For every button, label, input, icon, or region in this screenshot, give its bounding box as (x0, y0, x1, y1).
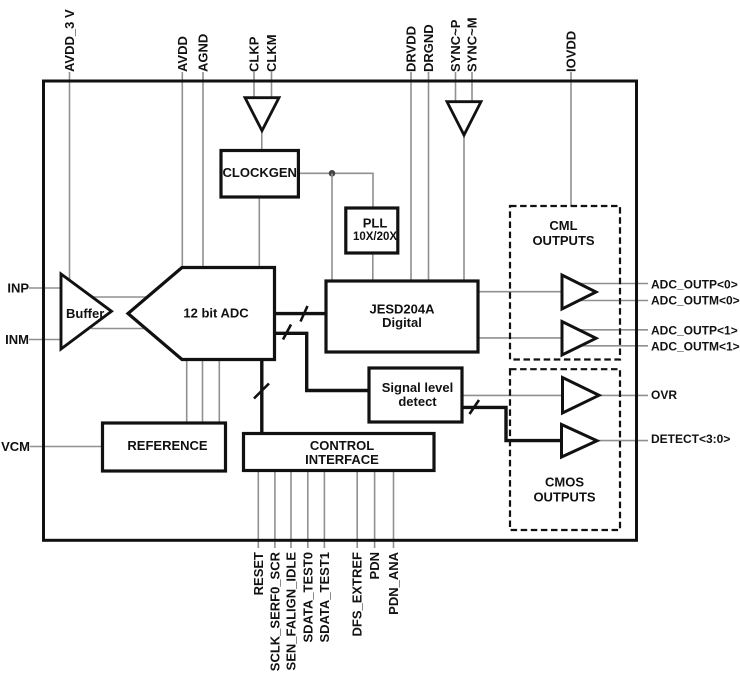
PLL block (346, 208, 398, 253)
wire ADC to control interface bus (260, 360, 263, 434)
svg-text:DETECT<3:0>: DETECT<3:0> (651, 432, 730, 446)
CML output buffer 1 (562, 322, 596, 356)
svg-text:PLL: PLL (363, 216, 388, 231)
svg-text:IOVDD: IOVDD (564, 31, 579, 72)
svg-text:CLKP: CLKP (247, 36, 262, 72)
outer frame (44, 81, 637, 540)
bus slash on ADC-JESD bus (301, 306, 308, 322)
svg-text:DRGND: DRGND (421, 24, 436, 72)
svg-text:12 bit ADC: 12 bit ADC (183, 306, 249, 321)
wire SDATA_TEST0 pin (307, 470, 309, 548)
svg-text:Signal level: Signal level (382, 380, 454, 395)
svg-text:INP: INP (7, 281, 29, 296)
bus slash on detect bus (470, 400, 480, 414)
wire PDN pin (374, 470, 376, 548)
wire ADC_OUTM1 output (566, 345, 648, 347)
wire DFS_EXTREF pin (356, 470, 358, 548)
clock input buffer triangle (245, 98, 279, 131)
wire SEN_FALIGN_IDLE pin (290, 470, 292, 548)
svg-text:CLKM: CLKM (264, 34, 279, 72)
wire ADC to REFERENCE 2 (202, 360, 204, 423)
svg-text:OVR: OVR (651, 388, 677, 402)
svg-text:DRVDD: DRVDD (404, 26, 419, 72)
svg-text:SCLK_SERF0_SCR: SCLK_SERF0_SCR (267, 551, 282, 671)
svg-text:PDN_ANA: PDN_ANA (386, 551, 401, 614)
wire ADC_OUTM0 output (566, 300, 648, 302)
svg-text:detect: detect (398, 394, 437, 409)
wire DRGND supply line (428, 72, 430, 280)
svg-text:PDN: PDN (367, 552, 382, 579)
wire AGND supply line (202, 72, 204, 267)
wire signal level detect to DETECT buffer bus (462, 407, 562, 440)
CONTROL INTERFACE block (244, 434, 435, 471)
wire ADC_OUTP1 output (566, 329, 648, 331)
svg-text:OUTPUTS: OUTPUTS (533, 490, 595, 505)
wire ADC to REFERENCE 1 (186, 360, 188, 423)
svg-text:AVDD: AVDD (175, 36, 190, 72)
CLOCKGEN block (221, 151, 298, 198)
wire signal level detect to OVR output (462, 394, 648, 396)
svg-text:OUTPUTS: OUTPUTS (532, 233, 594, 248)
wire INM input (29, 339, 61, 341)
svg-text:ADC_OUTM<0>: ADC_OUTM<0> (651, 293, 740, 307)
wire ADC to JESD204A bus (275, 312, 327, 315)
wire SYNC~P input line (455, 72, 457, 104)
svg-text:CLOCKGEN: CLOCKGEN (223, 165, 297, 180)
wire CLKP input line (253, 72, 255, 100)
wire SDATA_TEST1 pin (323, 470, 325, 548)
svg-text:Buffer: Buffer (66, 306, 104, 321)
wire AVDD supply line (181, 72, 183, 267)
wire CLOCKGEN to ADC (258, 197, 260, 267)
wire SYNC~M input line (471, 72, 473, 104)
wire VCM to REFERENCE (30, 446, 103, 448)
svg-text:DFS_EXTREF: DFS_EXTREF (350, 552, 365, 637)
svg-text:VCM: VCM (1, 439, 30, 454)
wire INP input (29, 287, 61, 289)
wire DETECT output (590, 440, 648, 442)
svg-text:CMOS: CMOS (545, 475, 584, 490)
wire buffer to ADC differential M (91, 328, 145, 330)
svg-text:ADC_OUTP<0>: ADC_OUTP<0> (651, 278, 738, 292)
svg-text:ADC_OUTM<1>: ADC_OUTM<1> (651, 339, 740, 353)
wire CLKM input line (271, 72, 273, 100)
wire IOVDD supply line (570, 72, 572, 206)
JESD204A Digital block (326, 281, 478, 352)
REFERENCE block (103, 423, 226, 471)
wire JESD204A to CML buffer 1 (478, 337, 562, 339)
svg-text:SYNC~M: SYNC~M (465, 17, 480, 72)
CML output buffer 0 (562, 275, 596, 309)
CMOS OUTPUTS dashed group (510, 369, 620, 530)
svg-text:SEN_FALIGN_IDLE: SEN_FALIGN_IDLE (284, 552, 299, 671)
svg-text:10X/20X: 10X/20X (353, 231, 397, 243)
svg-text:INTERFACE: INTERFACE (305, 452, 379, 467)
SYNC input buffer triangle (447, 102, 481, 135)
wire junction down to JESD204A (331, 173, 333, 281)
wire buffer to ADC differential P (89, 296, 147, 298)
svg-text:CONTROL: CONTROL (310, 438, 374, 453)
wire RESET pin (257, 470, 259, 548)
wire ADC_OUTP0 output (566, 283, 648, 285)
wire AVDD_3V supply line (69, 72, 71, 280)
bus slash on ADC-control bus (254, 384, 269, 399)
OVR output buffer (563, 378, 600, 414)
wire JESD204A to CML buffer 0 (478, 291, 562, 293)
wire ADC to signal level detect bus (275, 333, 370, 390)
12 bit ADC block (128, 268, 275, 360)
node junction on CLOCKGEN output (329, 170, 336, 177)
svg-text:SYNC~P: SYNC~P (448, 19, 463, 72)
svg-text:ADC_OUTP<1>: ADC_OUTP<1> (651, 323, 738, 337)
svg-text:AGND: AGND (196, 34, 211, 72)
signal level detect block (369, 368, 462, 422)
svg-text:RESET: RESET (251, 552, 266, 595)
svg-text:SDATA_TEST0: SDATA_TEST0 (300, 552, 315, 643)
wire CLOCKGEN to PLL (298, 173, 373, 208)
svg-text:SDATA_TEST1: SDATA_TEST1 (317, 552, 332, 643)
wire DRVDD supply line (410, 72, 412, 280)
svg-text:INM: INM (5, 332, 29, 347)
input buffer (Buffer) (61, 274, 112, 349)
CML OUTPUTS dashed group (510, 206, 620, 360)
svg-text:AVDD_3 V: AVDD_3 V (62, 9, 77, 72)
svg-text:CML: CML (549, 218, 577, 233)
bus slash on ADC-signal-detect bus (283, 325, 291, 340)
wire PDN_ANA pin (393, 470, 395, 548)
wire ADC to REFERENCE 3 (218, 360, 220, 423)
wire PLL to JESD204A (372, 253, 374, 281)
DETECT output buffer (562, 425, 598, 458)
svg-text:Digital: Digital (382, 315, 422, 330)
svg-text:REFERENCE: REFERENCE (127, 438, 208, 453)
wire SCLK_SERF0_SCR pin (274, 470, 276, 548)
wire SYNC buffer to JESD204A (463, 135, 465, 281)
wire clock buffer output to CLOCKGEN (261, 130, 263, 151)
